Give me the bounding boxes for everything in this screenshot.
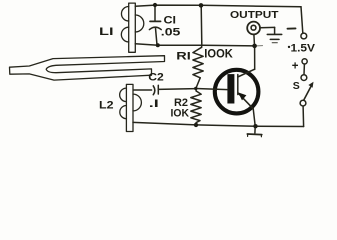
resistor R1: [193, 5, 203, 88]
battery minus terminal: [301, 33, 307, 39]
wire top rail: [135, 5, 301, 7]
wire collector line: [135, 44, 254, 46]
wire collector vertical: [254, 46, 256, 70]
node dot base junction: [194, 87, 197, 90]
node dot C1 bottom: [156, 43, 160, 47]
inductor L2: [120, 84, 142, 131]
node dot top rail R1: [199, 3, 204, 8]
capacitor C1: [149, 5, 161, 45]
svg-text:IOOK: IOOK: [204, 49, 233, 61]
svg-text:+: +: [292, 60, 299, 72]
transistor Q1: [215, 69, 259, 113]
svg-text:LI: LI: [99, 26, 114, 38]
switch S: [300, 75, 313, 127]
node dot 1.5V leading period: [288, 46, 290, 48]
node dot R2 bottom: [194, 123, 198, 127]
capacitor C2: [133, 85, 196, 95]
svg-text:OUTPUT: OUTPUT: [230, 9, 279, 21]
node dot emitter ground: [253, 124, 257, 128]
ground bottom: [247, 126, 261, 137]
svg-text:CI: CI: [164, 14, 177, 26]
svg-text:1.5V: 1.5V: [291, 42, 316, 54]
ground output: [267, 27, 281, 42]
wire base lead: [196, 89, 228, 90]
node dot collector junction: [252, 44, 257, 49]
svg-text:S: S: [293, 80, 300, 92]
svg-text:IOK: IOK: [171, 108, 190, 120]
wire battery minus drop: [301, 7, 303, 33]
svg-text:.I: .I: [149, 98, 159, 110]
wire bottom rail: [133, 122, 304, 126]
svg-text:L2: L2: [99, 100, 114, 112]
output jack J1: [247, 22, 274, 46]
svg-text:C2: C2: [148, 72, 164, 84]
battery plus terminal: [302, 59, 307, 64]
svg-text:.05: .05: [161, 27, 181, 39]
node dot top rail C1: [153, 3, 157, 7]
wire plus to switch: [303, 64, 305, 75]
resistor R2: [191, 89, 201, 125]
inductor L1: [121, 3, 143, 52]
svg-text:RI: RI: [176, 51, 191, 63]
battery minus dash: [288, 27, 296, 29]
wire emitter vertical: [253, 109, 255, 127]
tuning fork: [10, 56, 165, 80]
